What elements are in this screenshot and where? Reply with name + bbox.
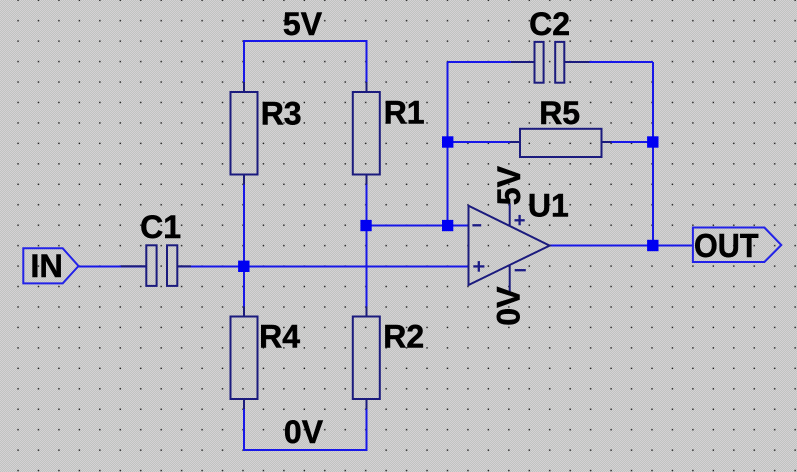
svg-text:U1: U1 <box>528 187 569 223</box>
svg-text:R4: R4 <box>259 319 300 355</box>
svg-text:OUT: OUT <box>694 227 759 264</box>
svg-text:R3: R3 <box>261 95 302 131</box>
svg-text:R1: R1 <box>384 95 425 131</box>
svg-text:IN: IN <box>30 248 63 284</box>
svg-text:0V: 0V <box>491 286 527 326</box>
svg-text:5V: 5V <box>491 165 527 205</box>
svg-text:C1: C1 <box>140 209 181 245</box>
svg-text:R5: R5 <box>539 95 580 131</box>
svg-text:5V: 5V <box>283 6 323 42</box>
svg-text:C2: C2 <box>529 6 570 42</box>
svg-text:0V: 0V <box>284 414 324 450</box>
svg-text:R2: R2 <box>383 319 424 355</box>
